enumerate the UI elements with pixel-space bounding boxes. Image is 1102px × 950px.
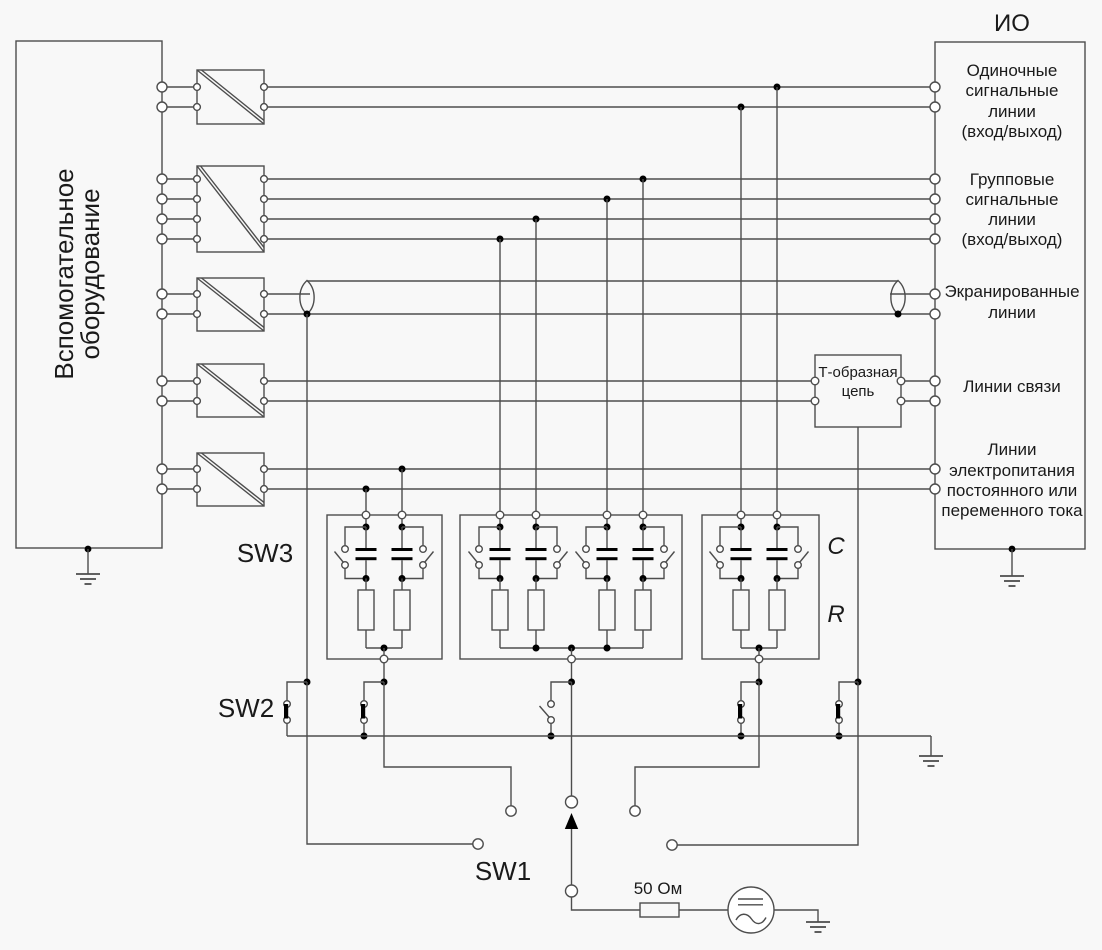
svg-text:цепь: цепь <box>842 383 875 400</box>
terminal: T-network left pin 2 <box>811 397 819 405</box>
wire: tap from group line 2 to module M2 branch 3 <box>606 199 608 511</box>
junction: module M2 bottom center node <box>568 645 575 652</box>
wire: module M1 branch 1 resistor bottom lead <box>365 630 367 648</box>
junction: module M2 bottom node a <box>533 645 540 652</box>
wire: module M2 bottom to SW2c node <box>571 663 573 682</box>
wire: jog to SW2d <box>741 682 759 701</box>
wire: A1 terminal to U2 left pin 2 <box>167 198 194 200</box>
wire: module M2 branch 2 jog to bypass switch top <box>536 527 557 546</box>
wire: jog to SW2b <box>364 682 384 701</box>
junction: SW2d node <box>756 679 763 686</box>
wire: module M2 branch 4 resistor top lead <box>642 579 644 591</box>
wire: module M2 branch 2 top lead <box>535 519 537 524</box>
wire: power line 2 (isolator to ИО) <box>267 488 930 490</box>
wire: single signal line 2 (isolator to ИО) <box>267 106 930 108</box>
junction: module M1 bottom center node <box>381 645 388 652</box>
junction: module M2 branch 1 top node <box>497 524 504 531</box>
junction: SW2c on ground bus <box>548 733 555 740</box>
terminal: ИО port group signal 4 <box>930 234 940 244</box>
junction: SW2a node <box>304 679 311 686</box>
junction: SW2e on ground bus <box>836 733 843 740</box>
isolator U2 body <box>197 166 264 252</box>
junction: module M3 branch 1 mid node <box>738 575 745 582</box>
terminal: SW1 position b <box>506 806 516 816</box>
wire: 50 Ohm resistor to generator <box>679 909 728 911</box>
junction: module M2 branch 3 mid node <box>604 575 611 582</box>
wire: module M2 branch 4 jog to bypass switch top <box>643 527 664 546</box>
junction: module M1 branch 2 mid node <box>399 575 406 582</box>
block A1: auxiliary equipment box (Вспомогательное оборудование) <box>16 41 162 548</box>
terminal: U2 left pin 3 <box>194 216 201 223</box>
shield symbol left (cable screen lens) <box>300 281 314 315</box>
wire: module M2 branch 4 top lead <box>642 519 644 524</box>
terminal: A1 port at y=219 <box>157 214 167 224</box>
wire: module M3 bottom to SW2d node <box>758 663 760 682</box>
wire: SW2b to ground bus <box>363 723 365 736</box>
terminal: U1 left pin 1 <box>194 84 201 91</box>
block A2: equipment under test box (ИО) <box>935 42 1085 549</box>
wire: module M3 branch 2 capacitor bottom lead <box>776 560 778 578</box>
terminal: module M2 branch 4 top port <box>639 511 647 519</box>
wire: A1 terminal to U2 left pin 1 <box>167 178 194 180</box>
wire: module M1 branch 2 capacitor top lead <box>401 527 403 548</box>
junction: module M3 bottom center node <box>756 645 763 652</box>
junction: module M2 bottom node b <box>604 645 611 652</box>
wire: tap from power line 2 to module M1 branch 1 <box>365 489 367 511</box>
terminal: module M3 branch 1 top port <box>737 511 745 519</box>
terminal: A1 port at y=401 <box>157 396 167 406</box>
wire: jog to SW2c <box>551 682 572 701</box>
switch: module M2 branch 4 bypass switch (open) <box>661 546 675 569</box>
wire: module M2 bottom bus <box>500 647 643 649</box>
wire: module M2 branch 4 capacitor bottom lead <box>642 560 644 578</box>
wire: module M1 branch 2 top lead <box>401 519 403 524</box>
terminal: A1 port at y=294 <box>157 289 167 299</box>
label: Линии электропитания постоянного или переменного тока <box>941 440 1083 520</box>
wire: A1 terminal to U2 left pin 3 <box>167 218 194 220</box>
wire: module M2 branch 3 resistor bottom lead <box>606 630 608 648</box>
wire: module M2 branch 1 capacitor top lead <box>499 527 501 548</box>
terminal: SW1 position a <box>473 839 483 849</box>
wire: feed port down and right to 50 Ohm resistor <box>572 897 641 910</box>
junction: SW2e node <box>855 679 862 686</box>
wire: module M1 branch 1 capacitor bottom lead <box>365 560 367 578</box>
terminal: module M1 branch 1 top port <box>362 511 370 519</box>
terminal: generator feed port <box>566 885 578 897</box>
svg-text:50 Ом: 50 Ом <box>634 879 683 898</box>
terminal: module M3 branch 2 top port <box>773 511 781 519</box>
junction: right shield to lower conductor <box>895 311 902 318</box>
terminal: U3 right pin 2 <box>261 311 268 318</box>
wire: module M3 branch 2 resistor top lead <box>776 579 778 591</box>
switch: SW2b (closed) <box>361 701 368 724</box>
junction: tap from single line 2 to module M3 branch 1 <box>738 104 745 111</box>
isolator U1 body <box>197 70 264 124</box>
junction: module M1 branch 2 top node <box>399 524 406 531</box>
ground GND2 (below ИО) <box>1000 549 1024 586</box>
terminal: module M1 branch 2 top port <box>398 511 406 519</box>
wire: group signal line 3 (isolator to ИО) <box>267 218 930 220</box>
wire: A1 terminal to U4 left pin 2 <box>167 400 194 402</box>
wire: SW2e to ground bus <box>838 723 840 736</box>
switch: SW2d (closed) <box>738 701 745 724</box>
wire: module M2 branch 2 resistor top lead <box>535 579 537 591</box>
module M1 enclosure box <box>327 515 442 659</box>
terminal: A1 port at y=314 <box>157 309 167 319</box>
wire: generator to earth <box>774 910 818 922</box>
terminal: U2 right pin 1 <box>261 176 268 183</box>
wire: module M2 branch 3 top lead <box>606 519 608 524</box>
wire: module M2 branch 1 bypass switch bottom jog <box>479 568 500 578</box>
wire: T-network to ИО line 1 <box>905 380 930 382</box>
wire: module M2 branch 1 jog to bypass switch top <box>479 527 500 546</box>
isolator U3 body <box>197 278 264 331</box>
junction: module M3 branch 2 top node <box>774 524 781 531</box>
terminal: U2 right pin 2 <box>261 196 268 203</box>
wire: shield drain continues to SW1 position a <box>307 682 473 844</box>
shield symbol right (cable screen lens) <box>891 281 905 315</box>
wire: module M3 continues to SW1 position c <box>635 682 759 806</box>
terminal: U4 right pin 2 <box>261 398 268 405</box>
junction: module M1 branch 1 top node <box>363 524 370 531</box>
resistor R (M2.3) <box>599 590 615 630</box>
svg-text:переменного тока: переменного тока <box>941 501 1083 520</box>
terminal: ИО port single signal 1 <box>930 82 940 92</box>
junction: module M2 branch 4 mid node <box>640 575 647 582</box>
resistor R (M3.2) <box>769 590 785 630</box>
terminal: ИО port power 2 <box>930 484 940 494</box>
svg-text:(вход/выход): (вход/выход) <box>962 230 1063 249</box>
wire: group signal line 1 (isolator to ИО) <box>267 178 930 180</box>
wire: module M3 branch 1 capacitor top lead <box>740 527 742 548</box>
svg-text:SW1: SW1 <box>475 856 531 886</box>
wire: module M1 branch 1 jog to bypass switch top <box>345 527 366 546</box>
wire: module M3 branch 1 resistor bottom lead <box>740 630 742 648</box>
junction: module M2 branch 1 mid node <box>497 575 504 582</box>
terminal: A1 port at y=107 <box>157 102 167 112</box>
terminal: ИО port group signal 3 <box>930 214 940 224</box>
wire: module M2 branch 1 resistor bottom lead <box>499 630 501 648</box>
terminal: SW1 common pole <box>566 796 578 808</box>
wire: module M2 branch 1 capacitor bottom lead <box>499 560 501 578</box>
switch: SW2c (open) <box>540 701 555 724</box>
wire: tap from single line 2 to module M3 branch 1 <box>740 107 742 511</box>
terminal: U5 right pin 1 <box>261 466 268 473</box>
capacitor C (M1.2) <box>392 548 413 560</box>
terminal: U4 left pin 1 <box>194 378 201 385</box>
terminal: A1 port at y=87 <box>157 82 167 92</box>
resistor R (M1.1) <box>358 590 374 630</box>
wire: module M2 branch 3 capacitor top lead <box>606 527 608 548</box>
capacitor C (M2.1) <box>490 548 511 560</box>
junction: SW2b node <box>381 679 388 686</box>
terminal: U3 left pin 2 <box>194 311 201 318</box>
label: Групповые сигнальные линии (вход/выход) <box>962 170 1063 249</box>
switch: module M1 branch 2 bypass switch (open) <box>420 546 434 569</box>
wire: SW1 wiper stem to feed terminal <box>571 829 573 885</box>
terminal: module M2 branch 3 top port <box>603 511 611 519</box>
terminal: U1 right pin 1 <box>261 84 268 91</box>
wire: shielded line inner conductor (isolator U3 to left shield) <box>267 293 310 295</box>
wire: module M1 branch 2 bypass switch bottom jog <box>402 568 423 578</box>
wire: module M1 branch 1 capacitor top lead <box>365 527 367 548</box>
junction: SW2b on ground bus <box>361 733 368 740</box>
terminal: U2 right pin 4 <box>261 236 268 243</box>
terminal: module M2 branch 1 top port <box>496 511 504 519</box>
svg-text:оборудование: оборудование <box>75 188 105 359</box>
junction: module M2 branch 4 top node <box>640 524 647 531</box>
wire: module M3 branch 1 resistor top lead <box>740 579 742 591</box>
wire: T-network to ИО line 2 <box>905 400 930 402</box>
junction: tap from power line 2 to module M1 branch 1 <box>363 486 370 493</box>
terminal: U4 left pin 2 <box>194 398 201 405</box>
wire: single signal line 1 (isolator to ИО) <box>267 86 930 88</box>
switch: module M1 branch 1 bypass switch (open) <box>335 546 349 569</box>
wire: module M3 branch 2 bypass switch bottom jog <box>777 568 798 578</box>
wire: shielded line lower conductor (U3 to ИО) <box>267 313 930 315</box>
terminal: U1 left pin 2 <box>194 104 201 111</box>
wire: power line 1 (isolator to ИО) <box>267 468 930 470</box>
wire: A1 terminal to U4 left pin 1 <box>167 380 194 382</box>
wire: tap from group line 4 to module M2 branch 1 <box>499 239 501 511</box>
switch: module M3 branch 1 bypass switch (open) <box>710 546 724 569</box>
ground GND4 (generator earth) <box>806 922 830 932</box>
terminal: U3 left pin 1 <box>194 291 201 298</box>
wire: SW2a to ground bus <box>286 723 288 736</box>
label: Экранированные линии <box>944 282 1079 322</box>
resistor R (M2.2) <box>528 590 544 630</box>
wire: module M1 branch 1 bypass switch bottom jog <box>345 568 366 578</box>
terminal: SW1 position c <box>630 806 640 816</box>
wire: module M2 branch 3 capacitor bottom lead <box>606 560 608 578</box>
svg-text:C: C <box>827 533 845 560</box>
switch: module M2 branch 2 bypass switch (open) <box>554 546 568 569</box>
isolator U4 body <box>197 364 264 417</box>
terminal: ИО port comm 1 <box>930 376 940 386</box>
wire: module M2 branch 3 jog to bypass switch top <box>586 527 607 546</box>
wire: module M2 branch 3 bypass switch bottom jog <box>586 568 607 578</box>
wire: module M3 branch 1 jog to bypass switch top <box>720 527 741 546</box>
wire: tap from group line 3 to module M2 branch 2 <box>535 219 537 511</box>
resistor R (M1.2) <box>394 590 410 630</box>
svg-text:(вход/выход): (вход/выход) <box>962 122 1063 141</box>
terminal: A1 port at y=179 <box>157 174 167 184</box>
wire: A1 terminal to U1 left pin 1 <box>167 86 194 88</box>
terminal: U3 right pin 1 <box>261 291 268 298</box>
switch: module M2 branch 3 bypass switch (open) <box>576 546 590 569</box>
svg-text:электропитания: электропитания <box>949 461 1075 480</box>
module M2 enclosure box <box>460 515 682 659</box>
wire: module M2 bottom to SW1 common pole <box>571 682 573 796</box>
terminal: U5 left pin 1 <box>194 466 201 473</box>
block: Т-образная цепь (T-network) <box>815 355 901 427</box>
terminal: ИО port group signal 1 <box>930 174 940 184</box>
isolator U5 body <box>197 453 264 506</box>
wire: A1 terminal to U5 left pin 2 <box>167 488 194 490</box>
terminal: A1 port at y=239 <box>157 234 167 244</box>
wire: group signal line 4 (isolator to ИО) <box>267 238 930 240</box>
terminal: ИО port comm 2 <box>930 396 940 406</box>
wire: module M2 branch 2 capacitor top lead <box>535 527 537 548</box>
svg-text:Линии связи: Линии связи <box>963 377 1061 396</box>
terminal: ИО port shielded 1 <box>930 289 940 299</box>
terminal: ИО port shielded 2 <box>930 309 940 319</box>
wire: A1 terminal to U2 left pin 4 <box>167 238 194 240</box>
ground GND3 (bus earth) <box>919 756 943 766</box>
terminal: U2 left pin 2 <box>194 196 201 203</box>
terminal: ИО port single signal 2 <box>930 102 940 112</box>
terminal: ИО port power 1 <box>930 464 940 474</box>
wire: module M1 branch 2 capacitor bottom lead <box>401 560 403 578</box>
wire: module M1 bottom bus <box>366 647 402 649</box>
junction: tap from group line 4 to module M2 branch 1 <box>497 236 504 243</box>
svg-text:линии: линии <box>988 210 1036 229</box>
ground GND1 (below auxiliary equipment) <box>76 549 100 584</box>
switch: module M2 branch 1 bypass switch (open) <box>469 546 483 569</box>
wire: module M2 branch 3 resistor top lead <box>606 579 608 591</box>
terminal: U5 right pin 2 <box>261 486 268 493</box>
svg-text:постоянного или: постоянного или <box>947 481 1078 500</box>
wire: module M2 branch 2 capacitor bottom lead <box>535 560 537 578</box>
capacitor C (M2.2) <box>526 548 547 560</box>
wire: jog to SW2a <box>287 682 307 701</box>
capacitor C (M2.3) <box>597 548 618 560</box>
wire: module M3 branch 2 capacitor top lead <box>776 527 778 548</box>
wire: module M2 branch 2 bypass switch bottom jog <box>536 568 557 578</box>
wire: module M1 bottom lead <box>383 648 385 655</box>
wire: tap from single line 1 to module M3 branch 2 <box>776 87 778 511</box>
resistor: 50 Ohm <box>640 903 679 917</box>
svg-text:Экранированные: Экранированные <box>944 282 1079 301</box>
wire: module M3 branch 2 resistor bottom lead <box>776 630 778 648</box>
junction: tap from group line 3 to module M2 branch 2 <box>533 216 540 223</box>
junction: tap from single line 1 to module M3 branch 2 <box>774 84 781 91</box>
wire: module M1 branch 1 top lead <box>365 519 367 524</box>
wire: module M1 branch 1 resistor top lead <box>365 579 367 591</box>
terminal: module M1 bottom port <box>380 655 388 663</box>
resistor R (M2.4) <box>635 590 651 630</box>
junction: module M2 branch 2 top node <box>533 524 540 531</box>
svg-text:ИО: ИО <box>994 10 1030 37</box>
wire: module M2 branch 2 resistor bottom lead <box>535 630 537 648</box>
svg-text:Одиночные: Одиночные <box>967 61 1058 80</box>
junction: module M1 branch 1 mid node <box>363 575 370 582</box>
wire: module M3 branch 1 capacitor bottom lead <box>740 560 742 578</box>
svg-text:SW3: SW3 <box>237 538 293 568</box>
wire: module M1 branch 2 jog to bypass switch top <box>402 527 423 546</box>
wire: module M1 branch 2 resistor top lead <box>401 579 403 591</box>
switch: SW2a (closed) <box>284 701 291 724</box>
wire: SW2c to ground bus <box>550 723 552 736</box>
svg-text:сигнальные: сигнальные <box>966 190 1059 209</box>
terminal: A1 port at y=489 <box>157 484 167 494</box>
label: Одиночные сигнальные линии (вход/выход) <box>962 61 1063 141</box>
wire: ground bus drop at right end <box>930 736 932 756</box>
wire: group signal line 2 (isolator to ИО) <box>267 198 930 200</box>
wire: module M2 branch 4 capacitor top lead <box>642 527 644 548</box>
generator G1 (signal source) <box>728 887 774 933</box>
module M3 enclosure box <box>702 515 819 659</box>
wire: module M3 bottom bus <box>741 647 777 649</box>
junction: module M3 branch 2 mid node <box>774 575 781 582</box>
wire: module M3 branch 1 top lead <box>740 519 742 524</box>
terminal: T-network right pin 2 <box>897 397 905 405</box>
junction: tap from group line 2 to module M2 branch 3 <box>604 196 611 203</box>
wire: T-network lead continues to SW1 position d <box>677 682 858 845</box>
wire: SW2d to ground bus <box>740 723 742 736</box>
svg-text:линии: линии <box>988 303 1036 322</box>
terminal: module M2 bottom port <box>568 655 576 663</box>
terminal: module M3 bottom port <box>755 655 763 663</box>
terminal: U4 right pin 1 <box>261 378 268 385</box>
wire: module M1 branch continues to SW1 position b <box>384 682 511 806</box>
terminal: U2 right pin 3 <box>261 216 268 223</box>
junction: tap from group line 1 to module M2 branch 4 <box>640 176 647 183</box>
wire: communication line 1 (U4 to T-network) <box>267 380 811 382</box>
svg-text:SW2: SW2 <box>218 693 274 723</box>
junction: tap from power line 1 to module M1 branch 2 <box>399 466 406 473</box>
svg-text:сигнальные: сигнальные <box>966 81 1059 100</box>
wire: module M2 branch 1 resistor top lead <box>499 579 501 591</box>
capacitor C (M1.1) <box>356 548 377 560</box>
wire: A1 terminal to U5 left pin 1 <box>167 468 194 470</box>
terminal: A1 port at y=199 <box>157 194 167 204</box>
wire: module M3 branch 2 jog to bypass switch top <box>777 527 798 546</box>
junction: module M3 branch 1 top node <box>738 524 745 531</box>
wire: module M2 branch 4 bypass switch bottom jog <box>643 568 664 578</box>
switch: module M3 branch 2 bypass switch (open) <box>795 546 809 569</box>
junction: left shield to lower conductor <box>304 311 311 318</box>
wire: A1 terminal to U3 left pin 1 <box>167 293 194 295</box>
terminal: U5 left pin 2 <box>194 486 201 493</box>
terminal: A1 port at y=469 <box>157 464 167 474</box>
junction: SW2c node <box>568 679 575 686</box>
wire: module M3 branch 1 bypass switch bottom jog <box>720 568 741 578</box>
wire: jog to SW2e <box>839 682 858 701</box>
terminal: U2 left pin 1 <box>194 176 201 183</box>
wire: A1 terminal to U1 left pin 2 <box>167 106 194 108</box>
wire: module M3 bottom lead <box>758 648 760 655</box>
wire: shield sheath line between shield symbols <box>307 280 898 282</box>
wire: T-network ground lead to SW2e node <box>857 427 859 682</box>
terminal: SW1 position d <box>667 840 677 850</box>
svg-text:Групповые: Групповые <box>970 170 1055 189</box>
terminal: T-network right pin 1 <box>897 377 905 385</box>
wire: SW2 common ground bus <box>287 735 931 737</box>
resistor R (M2.1) <box>492 590 508 630</box>
wire: tap from group line 1 to module M2 branch 4 <box>642 179 644 511</box>
wire: module M2 branch 4 resistor bottom lead <box>642 630 644 648</box>
wire: module M1 bottom to SW2b node <box>383 663 385 682</box>
wire: shield drain vertical (left shield to SW2 node) <box>306 314 308 682</box>
wire: tap from power line 1 to module M1 branch 2 <box>401 469 403 511</box>
terminal: module M2 branch 2 top port <box>532 511 540 519</box>
svg-text:Т-образная: Т-образная <box>818 364 897 381</box>
junction: SW2d on ground bus <box>738 733 745 740</box>
terminal: T-network left pin 1 <box>811 377 819 385</box>
junction: left block ground node <box>85 546 92 553</box>
arrow: SW1 wiper (points up) <box>565 813 578 829</box>
svg-text:R: R <box>827 601 844 628</box>
svg-text:линии: линии <box>988 102 1036 121</box>
wire: right shield to ИО port <box>890 293 930 295</box>
wire: module M1 branch 2 resistor bottom lead <box>401 630 403 648</box>
terminal: A1 port at y=381 <box>157 376 167 386</box>
wire: communication line 2 (U4 to T-network) <box>267 400 811 402</box>
junction: ИО ground node <box>1009 546 1016 553</box>
svg-text:Линии: Линии <box>987 440 1036 459</box>
switch: SW2e (closed) <box>836 701 843 724</box>
